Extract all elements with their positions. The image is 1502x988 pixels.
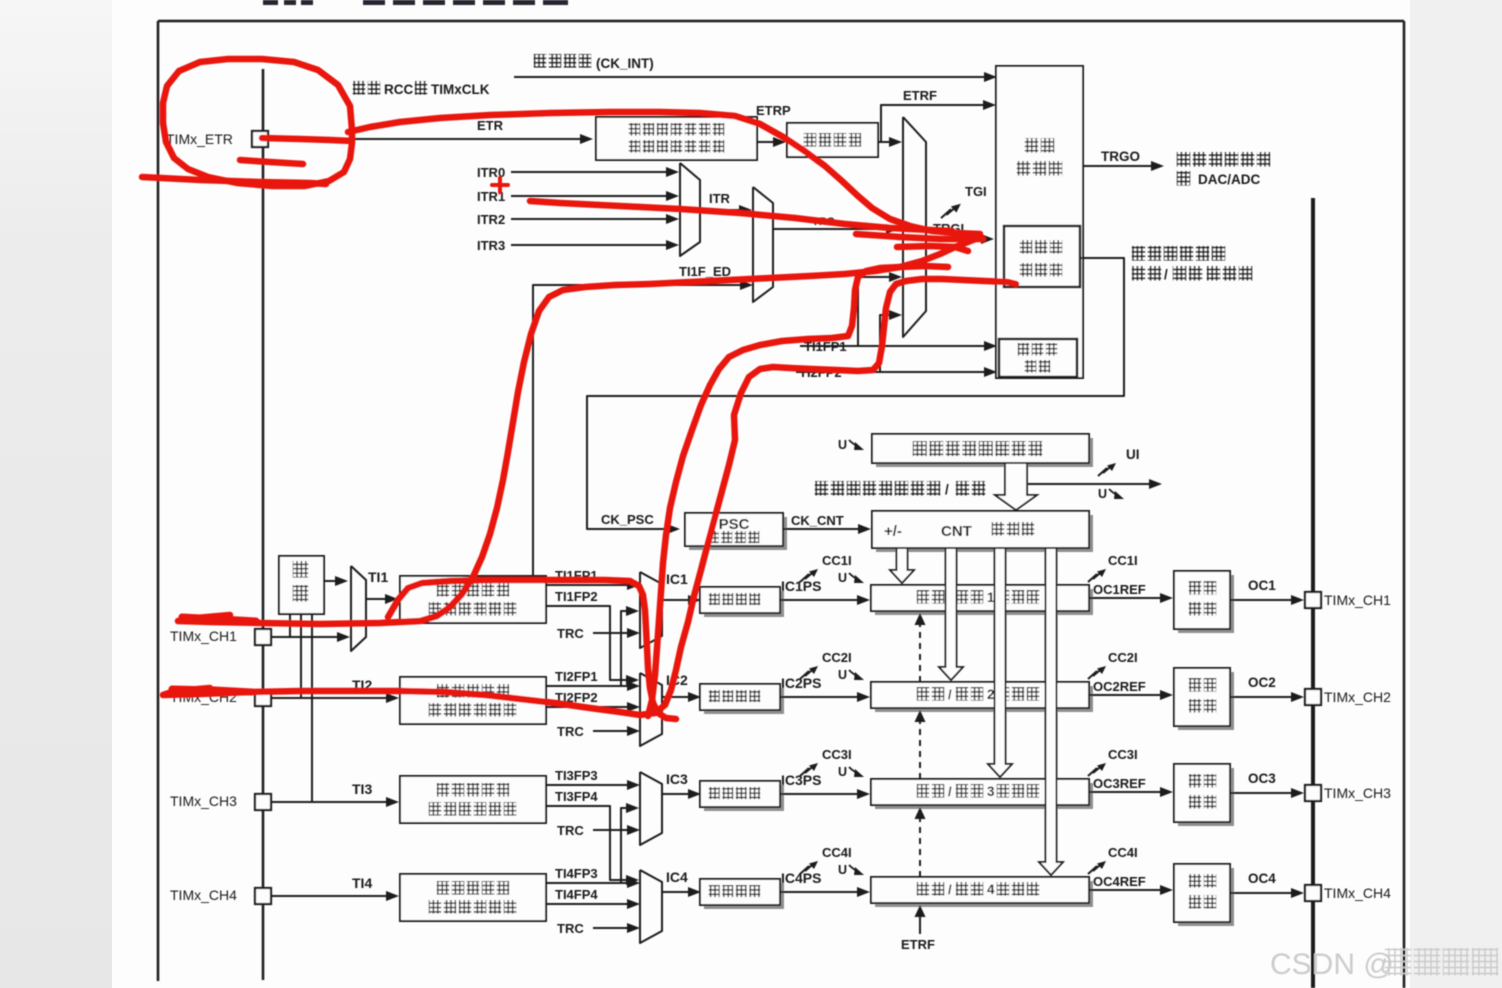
svg-text:TI2FP1: TI2FP1 [555,669,598,684]
wire TRGI from mux into slave mode controller [926,238,982,240]
right gray margin strip [1410,0,1502,988]
pin pad TIMx_CH3 (right) [1305,785,1321,801]
wire OC4 to output pin [1230,892,1292,894]
wire OC2 to output pin [1230,696,1292,698]
wire IC1PS into capture/compare register [780,599,858,601]
wire OC3 to output pin [1230,792,1292,794]
wire TI1FP1 from filter to IC1 mux [546,584,628,586]
block CNT 计数器 (counter) [876,515,1093,552]
block 预分频器 (channel 3 prescaler) [704,785,784,811]
wire TI1FP1 into encoder interface [800,345,985,347]
svg-text:ETR: ETR [477,118,504,133]
wire TI3 from pad into input filter 3 [271,801,387,803]
svg-text:TIMx_CH3: TIMx_CH3 [1324,785,1391,801]
wire filtered ETR into big trigger mux [878,141,890,143]
svg-text:TRC: TRC [557,823,584,838]
dashed compare arrow register2 to register1 [919,625,921,682]
svg-text:IC3: IC3 [666,771,688,787]
svg-text:TI3FP3: TI3FP3 [555,768,598,783]
block 输出控制 (channel 4 output control) [1178,868,1234,926]
label 至其它定时器 / 至 DAC/ADC [1177,152,1190,167]
wire TRC into IC1 mux [593,632,628,634]
red annotation: plus mark above ITR1 [492,183,508,187]
svg-text:TIMx_CH1: TIMx_CH1 [1324,592,1391,608]
svg-text:ETRF: ETRF [901,937,935,952]
svg-text:TI1FP2: TI1FP2 [555,589,598,604]
wire TI4FP4 from filter to IC4 mux [546,903,628,905]
svg-text:ITR2: ITR2 [477,212,505,227]
wire CK_INT into trigger controller [514,76,985,78]
svg-text:TRC: TRC [557,921,584,936]
label 来自RCC的TIMxCLK [353,81,365,95]
wire TI4FP3 from filter to IC4 mux [546,882,628,884]
wire IC2 from mux to prescaler [662,696,689,698]
svg-text:CK_CNT: CK_CNT [791,513,844,528]
mux IC1 selector [640,572,662,648]
svg-text:4: 4 [987,882,995,897]
figure frame top border [158,20,1404,23]
svg-text:TIMx_CH3: TIMx_CH3 [170,793,237,809]
svg-text:CC1I: CC1I [1108,553,1138,568]
red annotation: trace from TIMx_CH1 up along TI1F_ED to trigger mux [178,238,978,624]
block 自动重装载寄存器 (auto-reload register) [876,438,1093,467]
svg-text:U: U [838,765,847,779]
svg-text:OC2: OC2 [1248,675,1276,690]
svg-text:TRC: TRC [557,724,584,739]
wire TI4FP3 cross-connect up to IC3 mux [546,808,627,883]
block 预分频器 (channel 2 prescaler) [704,688,784,714]
mux trigger source selector (big trapezoid) [903,117,926,337]
svg-text:TIMxCLK: TIMxCLK [431,82,490,97]
wire XOR inputs from CH1/CH2/CH3 [289,614,291,637]
wire ITR2 into ITR mux [511,218,667,220]
pin pad TIMx_CH2 (left) [255,690,271,706]
wire ITR3 into ITR mux [511,244,667,246]
right channel pin bus (vertical) [1311,198,1315,988]
block 极性选择、边沿检测和预分频器 [596,117,757,160]
pin pad TIMx_ETR [252,131,268,147]
svg-text:TI4FP4: TI4FP4 [555,887,598,902]
svg-text:OC2REF: OC2REF [1093,679,1146,694]
left gray margin strip [0,0,112,988]
block 预分频器 (channel 4 prescaler) [704,883,784,909]
block 触发控制器 (trigger controller) [996,66,1083,378]
block 预分频器 (channel 1 prescaler) [704,591,784,617]
svg-text:TIMx_CH4: TIMx_CH4 [170,887,237,903]
label 内部时钟 (CK_INT) [534,54,546,68]
svg-text:UI: UI [1126,447,1140,462]
wire TRC into IC3 mux [593,829,628,831]
svg-text:U: U [1098,487,1107,501]
wire TI2 from pad into input filter 2 [271,697,387,699]
pin pad TIMx_CH4 (right) [1305,885,1321,901]
wire TI1FP2 cross-connect down to IC2 mux [546,606,627,680]
wire TI2FP2 into encoder interface [796,371,985,373]
block 输入滤波 (input filter) [787,123,878,157]
svg-text:TGI: TGI [965,184,987,199]
wire TRGO output [1083,165,1151,167]
wire TRC into IC4 mux [593,927,628,929]
wire slave-mode control feedback down to prescaler clock [587,258,1124,529]
svg-text:TIMx_CH2: TIMx_CH2 [1324,689,1391,705]
wire TI1F_ED from channel1 edge detector up into TRC mux [533,285,741,576]
svg-text:TI4FP3: TI4FP3 [555,866,598,881]
svg-text:+/-: +/- [884,523,902,540]
mux TI1 selector [351,566,366,651]
pin pad TIMx_CH3 (left) [255,794,271,810]
red annotation: trace rising from IC2 area along TI1FP1 into slave mode controller [648,266,948,716]
svg-text:CK_PSC: CK_PSC [601,512,654,527]
svg-text:/: / [948,784,952,799]
wire TI2FP2 riser into big trigger mux [880,315,890,372]
wire IC3PS into capture/compare register [780,793,858,795]
wire update event UI to the right [1028,483,1149,485]
block 输出控制 (channel 2 output control) [1178,672,1234,730]
wire ETRP to input filter [757,141,773,143]
svg-text:3: 3 [987,784,995,799]
wire OC1 to output pin [1230,599,1292,601]
wire XOR output into TI1 mux [324,580,336,582]
wire CK_CNT from PSC to counter [783,528,859,530]
red annotation: extra scribble over TIMx_CH1 label [182,617,256,621]
block 输出控制 (channel 1 output control) [1178,575,1234,633]
svg-text:ITR: ITR [709,191,731,206]
svg-text:/: / [1164,267,1168,282]
svg-text:U: U [838,438,847,452]
hollow capture arrow from counter to register 4 [1039,548,1063,875]
figure frame right border [1403,21,1406,988]
wire IC1 from mux to prescaler [662,599,689,601]
svg-text:TRC: TRC [557,626,584,641]
red annotation: circle around TIMx_ETR pin [163,59,352,186]
svg-text:CC3I: CC3I [822,747,852,762]
svg-text:U: U [838,571,847,585]
svg-text:TIMx_CH4: TIMx_CH4 [1324,885,1391,901]
red annotation: short hooked stroke below TRGI [897,246,968,251]
dashed compare arrow register4 to register3 [919,819,921,877]
svg-text:OC1: OC1 [1248,578,1276,593]
svg-text:U: U [838,863,847,877]
hollow update arrow from auto-reload register down to counter [995,463,1037,510]
svg-text:ETRF: ETRF [903,88,937,103]
svg-text:DAC/ADC: DAC/ADC [1198,172,1260,187]
svg-text:OC4REF: OC4REF [1093,874,1146,889]
wire OC1REF from register to output control [1089,597,1161,599]
svg-text:2: 2 [987,687,995,702]
svg-text:OC3: OC3 [1248,771,1276,786]
wire OC4REF from register to output control [1089,889,1161,891]
block 从模式控制器 (slave mode controller) [1004,226,1080,287]
block 捕获/比较2寄存器 (capture/compare register 2) [875,686,1093,712]
figure frame left border [157,21,160,981]
pin pad TIMx_CH1 (right) [1305,592,1321,608]
block 输入滤波器和边沿检测器 (channel 4) [400,874,546,921]
red annotation: long stroke from circle along ETR path descending to TRGI [348,112,980,234]
red annotation: band stroke at TRGI [856,234,983,239]
svg-text:TI3: TI3 [352,781,372,797]
block 捕获/比较3寄存器 (capture/compare register 3) [875,783,1093,809]
pin pad TIMx_CH1 (left) [255,629,271,645]
block 捕获/比较4寄存器 (capture/compare register 4) [875,881,1093,907]
wire IC2PS into capture/compare register [780,696,858,698]
svg-text:RCC: RCC [384,82,413,97]
hollow capture arrow from counter to register 2 [939,548,963,680]
red annotation: underline stroke left of circle [142,177,326,184]
wire ITR from mux to second mux [700,209,740,211]
block 输入滤波器和边沿检测器 (channel 1) [400,576,546,623]
wire ETR from pad to polarity block [268,138,581,140]
svg-text:U: U [838,668,847,682]
svg-text:(CK_INT): (CK_INT) [596,56,654,71]
svg-text:PSC: PSC [719,516,750,533]
svg-text:CC3I: CC3I [1108,747,1138,762]
wire TI1 into input filter 1 [366,598,386,600]
svg-text:TI1: TI1 [368,569,388,585]
svg-text:ETRP: ETRP [756,103,791,118]
wire IC3 from mux to prescaler [662,793,689,795]
svg-text:/: / [948,882,952,897]
mux IC4 selector [640,870,662,943]
wire TI2FP2 from filter to IC2 mux [546,706,628,708]
wire TI4 from pad into input filter 4 [271,895,387,897]
wire TI2FP1 cross-connect up to IC1 mux [546,611,627,686]
svg-text:CC1I: CC1I [822,553,852,568]
svg-text:OC4: OC4 [1248,871,1276,886]
red annotation: short stroke inside circle [240,160,303,164]
svg-text:CC4I: CC4I [1108,845,1138,860]
red annotation: trace along TI1FP1 row descending to IC2 mux [388,580,676,719]
pin pad TIMx_CH4 (left) [255,888,271,904]
block 编码器接口 (encoder interface) [999,339,1077,377]
mux IC3 selector [640,772,662,845]
wire TRC from mux to big trigger mux [773,228,887,230]
mux ITR selector (trapezoid) [680,163,700,256]
red annotation: extra scribble over TIMx_CH2 label [172,689,252,692]
svg-text:IC1: IC1 [666,571,688,587]
svg-text:TI1F_ED: TI1F_ED [679,264,731,279]
wire OC2REF from register to output control [1089,694,1161,696]
svg-text:TIMx_CH1: TIMx_CH1 [170,628,237,644]
svg-text:TIMx_ETR: TIMx_ETR [166,131,233,147]
wire TI2FP1 from filter to IC2 mux [546,685,628,687]
wire IC4 from mux to prescaler [662,891,689,893]
wire CH1 into TI1 mux [271,636,338,638]
wire TI3FP4 cross-connect down to IC4 mux [546,806,627,880]
svg-text:TI3FP4: TI3FP4 [555,789,598,804]
wire OC3REF from register to output control [1089,791,1161,793]
mux IC2 selector [640,673,662,746]
block 异或 (XOR) [279,556,324,614]
red annotation: trace from TIMx_CH2 rising along TI2FP2 into slave mode controller [163,279,1016,715]
cropped title text fragments (bottom of '通用定时器框图') [263,0,278,5]
wire IC4PS into capture/compare register [780,891,858,893]
mux TRC selector (trapezoid) [753,187,773,302]
wire TI3FP3 from filter to IC3 mux [546,784,628,786]
svg-text:ITR3: ITR3 [477,238,505,253]
svg-text:CC2I: CC2I [1108,650,1138,665]
svg-text:CC2I: CC2I [822,650,852,665]
dashed compare arrow register3 to register2 [919,722,921,779]
block 输入滤波器和边沿检测器 (channel 2) [400,677,546,724]
block 输出控制 (channel 3 output control) [1178,768,1234,826]
wire ITR1 into ITR mux [511,195,667,197]
label 停止、清除或向上/向下 [815,481,828,496]
wire TI1FP1 riser into big trigger mux [858,277,890,346]
svg-text:TRGO: TRGO [1101,149,1140,164]
block 输入滤波器和边沿检测器 (channel 3) [400,776,546,823]
svg-text:/: / [948,687,952,702]
block PSC 预分频器 (prescaler) [689,517,787,550]
red annotation: stroke along ITR1 toward trigger mux [530,201,952,231]
svg-text:IC4: IC4 [666,869,688,885]
wire ETRF tap up to trigger controller [881,105,984,142]
hollow capture arrow from counter to register 1 [890,548,914,583]
label 复位、使能、向上/向下、计数 [1132,246,1145,261]
svg-text:CSDN @: CSDN @ [1270,948,1394,981]
hollow capture arrow from counter to register 3 [988,548,1012,777]
svg-text:CC4I: CC4I [822,845,852,860]
wire ITR0 into ITR mux [511,171,667,173]
svg-text:/: / [945,482,949,497]
svg-text:CNT: CNT [941,523,972,540]
left input pin bus (vertical) [262,69,265,980]
block 捕获/比较1寄存器 (capture/compare register 1) [875,589,1093,615]
svg-text:TI4: TI4 [352,875,372,891]
wire TRC into IC2 mux [593,730,628,732]
pin pad TIMx_CH2 (right) [1305,689,1321,705]
wire ETRF into register4 from below [919,917,921,934]
svg-text:OC3REF: OC3REF [1093,776,1146,791]
red annotation: stroke over ETR wire inside circle [262,138,352,141]
svg-text:OC1REF: OC1REF [1093,582,1146,597]
